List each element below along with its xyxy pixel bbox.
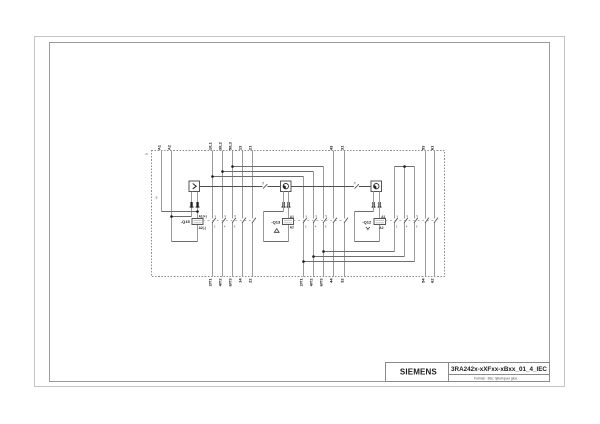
- contact Q15 21-22: [252, 218, 256, 223]
- schematic group: [145, 141, 445, 286]
- wires: Q12 coil feed: [355, 192, 380, 242]
- surge suppressor pair Q12 left: [372, 202, 376, 208]
- contact Q12 5-6: [414, 218, 418, 223]
- wire Q13 aux 31 down: [344, 151, 346, 219]
- svg-text:4/T2: 4/T2: [309, 278, 314, 287]
- inner page frame: [50, 43, 550, 382]
- mechanical link Q12: [386, 220, 434, 222]
- contactor Q15 coil: [192, 219, 203, 225]
- mechanical link Q13: [294, 220, 344, 222]
- svg-text:3/L2: 3/L2: [218, 141, 223, 150]
- wire L1 tap horizontal: [213, 176, 304, 178]
- wire Q15 aux 13 down: [242, 151, 244, 219]
- wire U2 out left down: [283, 192, 285, 212]
- wire Q13 aux 32 down: [344, 223, 346, 277]
- wire L1 tap down to Q13: [303, 177, 305, 219]
- svg-text:A2: A2: [167, 144, 172, 150]
- node A2-branch: [170, 215, 173, 218]
- node Q13 out2: [302, 260, 305, 263]
- svg-text:A2: A2: [379, 226, 383, 230]
- wire A1 horizontal: [162, 211, 198, 213]
- terminal 3/L2 label: [218, 141, 223, 150]
- module U3 box (timer clock): [371, 181, 382, 192]
- svg-text:31: 31: [340, 145, 345, 150]
- wire cross 4 to star2: [314, 256, 405, 258]
- delta symbol Q13: [274, 229, 279, 233]
- wire Q13 aux 44 down: [333, 223, 335, 277]
- svg-text:SIEMENS: SIEMENS: [400, 368, 438, 377]
- terminal 61 label: [430, 145, 435, 150]
- wire A2 wrap bottom: [172, 241, 198, 243]
- wire 2/T1 down: [212, 223, 214, 277]
- wires: Q13 coil feed: [264, 192, 289, 242]
- node Q13 out4: [312, 255, 315, 258]
- surge suppressor pair Q13 right: [287, 202, 291, 208]
- wire 4/T2 down: [222, 223, 224, 277]
- terminal A1 label: [157, 144, 162, 150]
- wire Q13 out 6 down: [323, 223, 325, 277]
- wire L2 tap down to Q13: [313, 172, 315, 219]
- svg-text:2/T1: 2/T1: [299, 278, 304, 287]
- terminal 5/L3 label: [228, 141, 233, 150]
- svg-text:Format - 30e: njhell quer glos: Format - 30e: njhell quer glos.: [474, 377, 518, 381]
- svg-text:2/T1: 2/T1: [208, 278, 213, 287]
- node Q13 out6: [322, 250, 325, 253]
- enclosure dashed boundary: [152, 151, 445, 277]
- svg-text:62: 62: [430, 278, 435, 283]
- contacts: slashes: [212, 218, 438, 223]
- svg-text:A2: A2: [290, 226, 294, 230]
- wire cross 2 to star3: [304, 261, 415, 263]
- wire Q12 aux 61 down: [434, 151, 436, 219]
- wire Q12 wrap up to coil: [379, 225, 381, 242]
- node star point: [403, 165, 406, 168]
- contact Q15 5-6: [232, 218, 236, 223]
- svg-text:14: 14: [238, 278, 243, 283]
- svg-text:44: 44: [329, 278, 334, 283]
- wire star leg 1 down: [394, 167, 396, 219]
- wire Q13 out 4 down: [313, 223, 315, 277]
- wire suppressor left leg Q15: [191, 192, 193, 217]
- svg-text:22: 22: [248, 278, 253, 283]
- wire A2 wrap up to coil: [197, 225, 199, 242]
- wire star leg 3 below contact: [414, 223, 416, 262]
- junction dots: [170, 165, 406, 263]
- wire Q12 aux 54 down: [425, 223, 427, 277]
- terminal 31 label: [340, 145, 345, 150]
- wire A1 down: [161, 151, 163, 212]
- title block: [386, 363, 550, 382]
- tap horizontals: [213, 167, 324, 177]
- wire U2 out right to coil top: [288, 192, 290, 219]
- wire star leg 2 down: [404, 167, 406, 219]
- contactor Q13 coil: [283, 219, 294, 225]
- terminal 1/L1 label: [208, 141, 213, 150]
- contact Q15 13-14: [242, 218, 246, 223]
- wire 5/L3 down: [232, 151, 234, 219]
- wire 1/L1 down: [212, 151, 214, 219]
- wire Q13 wrap top: [264, 211, 284, 213]
- wire Q12 aux 62 down: [434, 223, 436, 277]
- inline contact 1x on link 2: [353, 181, 359, 188]
- wire A2 down: [171, 151, 173, 242]
- wires: outputs below contacts: [213, 223, 435, 277]
- terminal 53 label: [421, 145, 426, 150]
- svg-text:13: 13: [238, 145, 243, 150]
- svg-text:1/L1: 1/L1: [208, 141, 213, 150]
- wire star leg 1 below contact: [394, 223, 396, 252]
- contact Q13 43-44: [333, 218, 337, 223]
- svg-text:-Q13: -Q13: [271, 219, 281, 224]
- svg-text:21: 21: [248, 145, 253, 150]
- wire star leg 3 down: [414, 167, 416, 219]
- svg-text:61: 61: [430, 145, 435, 150]
- contact Q12 1-2: [394, 218, 398, 223]
- contactor Q12 coil: [374, 219, 386, 225]
- wire module link 1: [200, 186, 263, 188]
- contact Q13 31-32: [344, 218, 348, 223]
- bottom terminal labels: [208, 278, 435, 287]
- terminal 43 label: [329, 145, 334, 150]
- svg-text:-o: -o: [145, 152, 148, 156]
- wire Q12 aux 53 down: [425, 151, 427, 219]
- electronic module chain wire: [200, 186, 372, 188]
- svg-text:e: e: [156, 195, 158, 199]
- mechanical link Q15: [203, 220, 251, 222]
- node L1 tap: [211, 175, 214, 178]
- svg-text:53: 53: [421, 145, 426, 150]
- wire L2 tap horizontal: [223, 171, 314, 173]
- surge suppressor pair Q13 left: [282, 202, 286, 208]
- wire Q12 wrap top: [355, 211, 374, 213]
- wire 3/L2 down: [222, 151, 224, 219]
- module U1 box (current sensor): [189, 181, 200, 192]
- wires: control supply: [162, 151, 198, 242]
- terminal 13 label: [238, 145, 243, 150]
- wire L3 tap down to Q13: [323, 167, 325, 219]
- svg-text:6/T3: 6/T3: [319, 278, 324, 287]
- wire Q13 aux 43 down: [333, 151, 335, 219]
- svg-text:4/T2: 4/T2: [218, 278, 223, 287]
- wire suppressor right leg Q15 / coil A1: [197, 192, 199, 219]
- wire Q15 aux 21 down: [252, 151, 254, 219]
- surge suppressor pair Q12 right: [378, 202, 382, 208]
- wire L3 tap horizontal: [233, 166, 324, 168]
- surge suppressor pair Q15 left: [190, 202, 194, 208]
- inline contact 1x on link 1: [261, 181, 267, 188]
- wire Q13 wrap left: [263, 212, 265, 242]
- svg-text:A1: A1: [290, 215, 294, 219]
- wire Q13 wrap up to coil: [288, 225, 290, 242]
- svg-text:-Q15: -Q15: [181, 219, 191, 224]
- contact pin numbers: [214, 214, 418, 228]
- svg-text:6/T3: 6/T3: [228, 278, 233, 287]
- terminal A2 label: [167, 144, 172, 150]
- wire A2 to suppressor: [172, 216, 192, 218]
- wire U3 out right to coil top: [379, 192, 381, 219]
- contact Q13 1-2: [303, 218, 307, 223]
- svg-text:43: 43: [329, 145, 334, 150]
- wire 6/T3 down: [232, 223, 234, 277]
- wire star leg 2 below contact: [404, 223, 406, 257]
- contact Q15 3-4: [222, 218, 226, 223]
- contact Q12 3-4: [404, 218, 408, 223]
- wire Q13 wrap bottom: [264, 241, 289, 243]
- wire module link 1b: [268, 186, 281, 188]
- contact Q12 61-62: [434, 218, 438, 223]
- module U2 box (timer clock): [281, 181, 292, 192]
- svg-text:A1: A1: [157, 144, 162, 150]
- surge suppressor pair Q15 right: [196, 202, 200, 208]
- wire Q12 wrap bottom: [355, 241, 380, 243]
- svg-text:5/L3: 5/L3: [228, 141, 233, 150]
- svg-text:3RA242x-xXFxx-xBxx_01_4_IEC: 3RA242x-xXFxx-xBxx_01_4_IEC: [451, 366, 547, 373]
- contact Q12 53-54: [425, 218, 429, 223]
- star symbol Q12: [366, 227, 370, 230]
- wire Q13 out 2 down: [303, 223, 305, 277]
- wire aux 22 down: [252, 223, 254, 277]
- contact Q13 3-4: [313, 218, 317, 223]
- contact Q13 5-6: [323, 218, 327, 223]
- wires: mains columns down to contacts: [213, 151, 435, 219]
- outer page frame: [35, 37, 565, 387]
- wire Q12 wrap left: [354, 212, 356, 242]
- svg-text:-Q12: -Q12: [362, 219, 372, 224]
- svg-text:54: 54: [421, 278, 426, 283]
- svg-text:A1(+): A1(+): [199, 214, 207, 218]
- svg-text:A2(-): A2(-): [199, 226, 206, 230]
- wire star bus: [395, 166, 415, 168]
- wire cross 6 to star1: [324, 251, 395, 253]
- wire module link 2b: [359, 186, 371, 188]
- node L2 tap: [221, 170, 224, 173]
- wire aux 14 down: [242, 223, 244, 277]
- svg-text:32: 32: [340, 278, 345, 283]
- wire module link 2: [291, 186, 354, 188]
- contact Q15 1-2: [212, 218, 216, 223]
- node A1-coil: [196, 210, 199, 213]
- terminal 21 label: [248, 145, 253, 150]
- wires: star bridge and cross connections: [395, 167, 415, 262]
- svg-text:A1: A1: [381, 215, 385, 219]
- wire U3 out left down: [373, 192, 375, 212]
- node L3 tap: [231, 165, 234, 168]
